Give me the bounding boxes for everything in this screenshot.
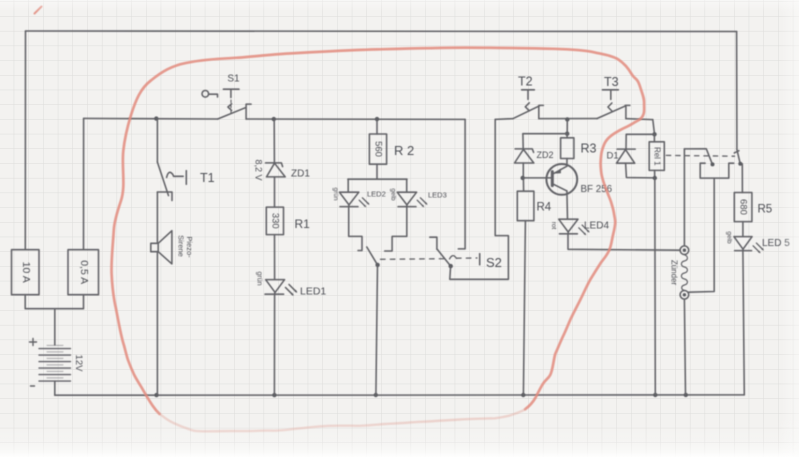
wire: cross link to ZD2 column <box>523 133 567 135</box>
svg-text:T2: T2 <box>518 75 533 89</box>
label LED5 <box>762 238 790 249</box>
label R2 <box>394 143 414 158</box>
svg-text:LED4: LED4 <box>584 221 609 232</box>
svg-text:8,2 V: 8,2 V <box>254 159 264 180</box>
wire: outer border left (to fuse F1) <box>24 31 26 250</box>
relay contact K1b blade <box>734 149 742 165</box>
wire: LED5 to bottom bus right end <box>743 251 744 395</box>
wire: LED2 LED3 top rail <box>348 178 407 180</box>
resistor R5 <box>734 193 752 237</box>
label gelb LED3 <box>390 188 397 201</box>
label LED4 <box>584 221 609 232</box>
wire: relay coil to bottom bus <box>654 178 657 395</box>
label T2 <box>518 75 533 89</box>
label S2 <box>486 255 502 270</box>
piezo speaker <box>151 231 172 264</box>
label rot LED4 <box>550 222 557 230</box>
value 560 <box>372 141 383 157</box>
wire: outer border top <box>26 30 737 33</box>
label ZD2 <box>537 150 554 160</box>
svg-text:gelb: gelb <box>726 231 733 244</box>
igniter Zuender terminals and coil <box>680 149 689 395</box>
label gelb LED5 <box>726 231 733 244</box>
label 12V <box>73 355 84 373</box>
LED D-LED1 <box>265 280 297 296</box>
wire: S2 pole2 common to right bus <box>450 119 509 279</box>
battery minus sign <box>31 385 35 387</box>
wire: fuse outputs join <box>25 295 83 345</box>
switch S1 blade and contact <box>218 104 251 119</box>
wire: K1b to R5 <box>741 164 743 193</box>
label Rel1 <box>653 147 662 166</box>
LED D-LED3 <box>397 179 427 207</box>
resistor R4 <box>517 178 534 221</box>
pushbutton T2 actuator <box>522 90 535 111</box>
switch S1 actuator bar <box>223 89 239 113</box>
wire: bottom bus <box>55 394 745 396</box>
zener diode ZD2 <box>515 134 534 178</box>
wire: R3 tap from bus <box>565 120 569 136</box>
relay gang dashed link <box>666 154 734 157</box>
wire: S2 left bus riser with contact hook <box>458 119 465 249</box>
svg-text:330: 330 <box>269 213 280 229</box>
wire: S2 pole1 common to bottom bus <box>376 265 378 395</box>
wire: LED4 to igniter <box>568 234 680 250</box>
label LED2 <box>367 190 386 199</box>
pushbutton T3 blade and contact <box>597 105 630 118</box>
label T3 <box>604 75 619 89</box>
LED D-LED2 <box>339 179 369 207</box>
label S1 <box>227 74 240 85</box>
red tick top left <box>35 7 42 14</box>
transistor Q1 BF256 <box>546 164 577 195</box>
label 10A <box>20 262 32 283</box>
pushbutton T1 <box>157 119 186 243</box>
label R5 <box>758 204 773 216</box>
svg-text:680: 680 <box>738 199 749 215</box>
svg-text:ZD2: ZD2 <box>537 150 554 160</box>
relay contact bridge bracket <box>700 163 734 178</box>
fuse F1 10A <box>12 250 40 295</box>
wire: battery to bottom bus <box>54 381 56 395</box>
label 8,2V <box>254 159 264 180</box>
label gruen LED1 <box>256 271 263 285</box>
switch S2 pole 2 contact <box>430 237 437 249</box>
svg-text:R1: R1 <box>295 217 311 231</box>
svg-text:R5: R5 <box>758 204 773 216</box>
wire: emitter to LED4 <box>566 191 569 219</box>
svg-text:R4: R4 <box>537 202 552 214</box>
svg-text:10 A: 10 A <box>20 262 32 283</box>
svg-text:560: 560 <box>372 141 383 157</box>
switch S2 pole 1 blade <box>367 247 380 267</box>
LED D-LED5 <box>734 237 764 254</box>
svg-text:T1: T1 <box>200 171 215 185</box>
ink layer <box>12 31 764 397</box>
zener diode ZD1 <box>266 119 286 207</box>
svg-text:Zünder: Zünder <box>670 260 679 286</box>
wire: outer border right drop (to relay contact K1b) <box>736 32 738 150</box>
resistor R2 <box>369 119 386 179</box>
label Sirene <box>177 235 186 257</box>
pushbutton T2 blade and contact <box>513 105 543 118</box>
label gruen LED2 <box>332 187 339 200</box>
fuse F2 0,5A <box>68 250 99 295</box>
svg-text:S1: S1 <box>227 74 240 85</box>
svg-text:R 2: R 2 <box>394 143 414 158</box>
node: bus junctions top <box>154 116 569 121</box>
svg-text:12V: 12V <box>73 355 84 373</box>
svg-text:S2: S2 <box>486 255 502 270</box>
label R1 <box>295 217 311 231</box>
svg-text:LED1: LED1 <box>300 286 326 298</box>
red annotation loop bottom (faint) <box>158 409 526 431</box>
relay contact K1a blade <box>684 149 714 167</box>
label ZD1 <box>291 169 310 180</box>
photo edge fades <box>0 420 799 457</box>
svg-text:LED3: LED3 <box>428 191 447 200</box>
wire: base link to transistor <box>523 177 552 179</box>
resistor R1 <box>266 207 283 235</box>
svg-text:Sirene: Sirene <box>177 235 186 257</box>
svg-text:ZD1: ZD1 <box>291 169 310 180</box>
svg-text:R3: R3 <box>581 142 597 156</box>
pushbutton T3 actuator <box>602 90 618 111</box>
resistor R3 <box>561 134 574 166</box>
value 330 <box>269 213 280 229</box>
svg-text:gelb: gelb <box>390 188 397 201</box>
wire: fuse F2 up to bus corner <box>83 118 85 249</box>
node: bus junctions bottom <box>154 393 688 398</box>
svg-text:LED2: LED2 <box>367 190 386 199</box>
label BF256 <box>581 184 613 195</box>
wire: R4 to bottom bus <box>523 221 525 395</box>
svg-text:0,5 A: 0,5 A <box>78 260 90 284</box>
diode D1 <box>617 149 655 178</box>
label D1 <box>607 151 619 162</box>
wire: R1 to LED1 <box>274 235 276 280</box>
svg-text:grün: grün <box>332 187 339 200</box>
battery B1 12V plates <box>39 345 71 381</box>
wire: LED2 down to S2 contact a <box>349 207 362 251</box>
label LED1 <box>300 286 326 298</box>
label LED3 <box>428 191 447 200</box>
relay coil Rel1 <box>649 134 664 180</box>
label R4 <box>537 202 552 214</box>
label R3 <box>581 142 597 156</box>
label Zuender <box>670 260 679 286</box>
label 0,5A <box>78 260 90 284</box>
svg-text:rot: rot <box>550 222 557 230</box>
wire: speaker down to bottom bus <box>156 252 158 395</box>
svg-text:grün: grün <box>256 271 263 285</box>
LED D-LED4 <box>559 219 590 235</box>
wire: LED3 down to S2 contact b <box>385 207 407 251</box>
wire: LED1 to bottom bus <box>273 294 275 395</box>
wire: link to D1 <box>626 134 655 149</box>
switch S1 key circle <box>202 91 218 98</box>
svg-text:D1: D1 <box>607 151 619 162</box>
wire: bus corner down to relay coil <box>652 120 656 137</box>
battery plus sign <box>30 339 37 346</box>
switch S2 pole 2 blade <box>437 249 453 268</box>
wire: top bus segments <box>84 118 653 119</box>
red annotation loop <box>35 7 645 432</box>
label T1 <box>200 171 215 185</box>
value 680 <box>738 199 749 215</box>
handwritten labels <box>20 74 790 373</box>
node: base junction <box>521 176 525 180</box>
label Piezo <box>185 236 194 258</box>
wire: igniter bottom to bracket riser <box>689 178 715 292</box>
svg-text:T3: T3 <box>604 75 619 89</box>
svg-text:Rel 1: Rel 1 <box>653 147 662 166</box>
switch S2 gang dashed link <box>381 254 480 265</box>
